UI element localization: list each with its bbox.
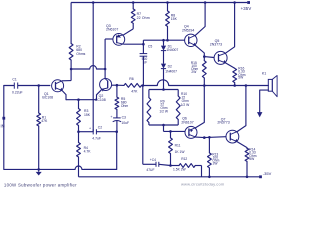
wire emitter rail bbox=[66, 99, 97, 101]
svg-text:1K 1W: 1K 1W bbox=[175, 150, 186, 154]
wire Q1/Q2 collector link with hop bbox=[71, 66, 105, 69]
wire Q4 base lead bbox=[184, 39, 186, 41]
svg-text:R11: R11 bbox=[175, 144, 181, 148]
svg-text:1N4007: 1N4007 bbox=[165, 69, 177, 73]
svg-text:15K: 15K bbox=[171, 17, 178, 21]
node bus C4/C5 junction bbox=[142, 84, 145, 87]
svg-text:Ohms: Ohms bbox=[76, 52, 85, 56]
svg-text:1/2 W: 1/2 W bbox=[159, 109, 168, 113]
svg-text:K1: K1 bbox=[262, 72, 266, 76]
wire R7 to Q3 emitter bbox=[124, 23, 134, 35]
svg-text:R12: R12 bbox=[181, 157, 187, 161]
svg-text:2N3773: 2N3773 bbox=[210, 43, 222, 47]
node R3 top junction bbox=[77, 98, 80, 101]
wire Q2 base bbox=[112, 84, 117, 86]
capacitor C1 0.22uF bbox=[12, 78, 50, 95]
resistor R7 bbox=[131, 9, 149, 23]
resistor R1 bbox=[37, 86, 48, 170]
caption website bbox=[181, 182, 225, 187]
node bus Q7 collector junction bbox=[245, 84, 248, 87]
svg-text:5W: 5W bbox=[249, 157, 255, 161]
svg-text:1/2 W: 1/2 W bbox=[181, 103, 190, 107]
ground symbol speaker bbox=[257, 112, 262, 117]
node bus R15 junction bbox=[203, 84, 206, 87]
node R9R10 bottom junction bbox=[162, 124, 165, 127]
node top rail junction J5 bbox=[233, 1, 236, 4]
capacitor C2 4.7uF bbox=[89, 126, 117, 141]
svg-text:4.7K: 4.7K bbox=[84, 150, 92, 154]
svg-text:47UF: 47UF bbox=[146, 168, 154, 172]
svg-text:www.circuitstoday.com: www.circuitstoday.com bbox=[181, 182, 225, 187]
wire output bus with hop bbox=[142, 80, 269, 86]
wire R2 bottom to Q1 collector bbox=[62, 60, 71, 81]
node R13 rail junction bbox=[208, 176, 211, 179]
wire Q6 emitter to bus bbox=[196, 86, 205, 128]
capacitor C4 47uF bbox=[146, 158, 170, 172]
wire Q7 collector to bus bbox=[237, 86, 246, 132]
node R1 ground junction bbox=[37, 168, 40, 171]
wire ground rail with hop bbox=[4, 166, 117, 169]
node top rail junction J3 bbox=[166, 1, 169, 4]
svg-text:2W: 2W bbox=[191, 70, 197, 74]
transistor Q6 2N6107 bbox=[181, 117, 197, 139]
wire Q2 emitter bbox=[97, 89, 103, 100]
resistor R15 bbox=[191, 57, 206, 86]
capacitor C5 560pF bbox=[140, 44, 153, 85]
resistor R6 bbox=[124, 77, 142, 93]
svg-text:5W: 5W bbox=[238, 76, 244, 80]
svg-text:1N4007: 1N4007 bbox=[166, 48, 178, 52]
svg-text:C5: C5 bbox=[148, 44, 152, 48]
caption title bbox=[4, 183, 77, 188]
wire R9R10 top bbox=[149, 89, 178, 91]
diode D2 1N4007 bbox=[161, 64, 177, 74]
resistor R5 bbox=[115, 85, 128, 109]
transistor Q3 2N6107 bbox=[106, 24, 125, 45]
wire Q1 emitter bbox=[62, 91, 66, 100]
svg-text:+C4: +C4 bbox=[150, 158, 156, 162]
node Q2 collector bbox=[104, 68, 107, 71]
wire Q3 base bbox=[105, 39, 113, 69]
node top rail junction J4 bbox=[204, 1, 207, 4]
wire C2 left bbox=[79, 131, 94, 133]
svg-text:IN: IN bbox=[1, 124, 5, 129]
svg-text:0.22uF: 0.22uF bbox=[12, 91, 23, 95]
resistor R16 bbox=[233, 67, 246, 86]
node C2/C3 ground junction bbox=[115, 130, 118, 133]
node R13 top junction bbox=[208, 136, 211, 139]
node Q6 collector / Q7 base node bbox=[203, 136, 206, 139]
resistor R9 bbox=[147, 90, 169, 126]
svg-text:+: + bbox=[89, 127, 91, 131]
wire Q4 emitter bbox=[195, 45, 204, 56]
wire -35V rail bbox=[79, 176, 260, 178]
wire Q5 emitter to R16 bbox=[225, 63, 234, 69]
svg-text:2N5294: 2N5294 bbox=[182, 28, 194, 32]
resistor R13 bbox=[208, 137, 220, 177]
wire Q3 collector bbox=[123, 43, 143, 45]
svg-text:+: + bbox=[110, 115, 112, 119]
node Q3 collector / C5 junction bbox=[142, 43, 145, 46]
node Q4 emitter / Q5 base node bbox=[203, 55, 206, 58]
node IN terminal bbox=[1, 117, 6, 129]
wire R4 to -35V rail bbox=[78, 157, 80, 177]
svg-text:-35V: -35V bbox=[263, 171, 272, 176]
transistor Q7 2N3773 bbox=[217, 118, 238, 143]
transistor Q1 BC108 bbox=[42, 80, 63, 100]
wire R9R10 bottom bbox=[149, 124, 178, 126]
wire Q2 collector stub bbox=[104, 69, 106, 79]
node -35V terminal bbox=[259, 171, 271, 178]
resistor R12 bbox=[171, 157, 202, 171]
svg-text:4.7uF: 4.7uF bbox=[92, 137, 101, 141]
wire to Q6 base bbox=[164, 125, 186, 131]
svg-text:2N3773: 2N3773 bbox=[217, 121, 229, 125]
svg-text:pF: pF bbox=[143, 61, 147, 65]
wire C2 node to ground rail bbox=[84, 132, 117, 170]
wire IN vertical bbox=[3, 86, 5, 170]
node Q1 collector junction bbox=[70, 68, 73, 71]
node D2 / R9R10 top junction bbox=[162, 88, 165, 91]
wire +35V top rail bbox=[71, 2, 247, 4]
transistor Q4 2N5294 bbox=[182, 25, 197, 47]
svg-text:+35V: +35V bbox=[241, 6, 252, 11]
svg-text:10uF: 10uF bbox=[121, 121, 129, 125]
node top rail junction J2 bbox=[132, 1, 135, 4]
wire Q7 emitter to R14 bbox=[237, 142, 247, 149]
wire bootstrap branch bbox=[143, 86, 156, 165]
svg-text:47K: 47K bbox=[131, 90, 138, 94]
wire input corner bbox=[4, 85, 14, 87]
wire R2 top lead bbox=[70, 3, 72, 44]
wire R8 top lead bbox=[167, 3, 169, 11]
svg-text:C1: C1 bbox=[12, 78, 16, 82]
transistor Q2 BC108 bbox=[95, 79, 112, 102]
speaker K1 bbox=[262, 72, 277, 97]
svg-text:2W: 2W bbox=[213, 161, 219, 165]
node Q1 base / R1 junction bbox=[37, 84, 40, 87]
resistor R8 bbox=[166, 11, 178, 27]
svg-text:Ohm: Ohm bbox=[121, 104, 129, 108]
node R11 top junction bbox=[169, 130, 172, 133]
svg-text:15K: 15K bbox=[84, 113, 91, 117]
wire D1-D2 bbox=[163, 51, 165, 64]
transistor Q5 2N3773 bbox=[210, 39, 227, 64]
svg-text:100W Subwoofer power amplifier: 100W Subwoofer power amplifier bbox=[4, 183, 77, 188]
wire Q5 base bbox=[204, 56, 214, 59]
resistor R10 bbox=[176, 90, 190, 126]
resistor R14 bbox=[245, 148, 257, 177]
svg-text:C3: C3 bbox=[122, 115, 126, 119]
node bus R16 junction bbox=[233, 84, 236, 87]
svg-text:BC108: BC108 bbox=[42, 96, 53, 100]
svg-text:C2: C2 bbox=[98, 126, 102, 130]
node R11 bottom junction bbox=[169, 164, 172, 167]
wire R8 bottom lead bbox=[167, 26, 169, 40]
node top rail junction J1 bbox=[92, 1, 95, 4]
wire R3-R4 bbox=[78, 126, 80, 143]
node +35V terminal bbox=[241, 1, 252, 11]
wire speaker to ground bbox=[260, 90, 269, 112]
node R8 bottom bbox=[166, 39, 169, 42]
node C2 branch junction bbox=[77, 130, 80, 133]
node D1 anode bbox=[162, 39, 165, 42]
wire Q4 collector bbox=[195, 3, 205, 36]
ground symbol input bbox=[36, 169, 42, 175]
svg-text:2N6107: 2N6107 bbox=[106, 28, 118, 32]
wire Q5 collector bbox=[225, 3, 234, 54]
svg-text:R6: R6 bbox=[129, 77, 134, 81]
wire R12 to -35V rail bbox=[201, 166, 203, 177]
node R14 rail junction bbox=[246, 176, 249, 179]
resistor R2 bbox=[69, 44, 85, 61]
wire Q6 collector bbox=[196, 136, 205, 139]
diode D1 1N4007 bbox=[161, 40, 178, 52]
svg-text:D2: D2 bbox=[168, 65, 172, 69]
svg-text:22 Ohm: 22 Ohm bbox=[137, 16, 150, 20]
node Q2 base / R5 / R6 junction bbox=[116, 84, 119, 87]
wire Q7 base bbox=[204, 136, 226, 139]
svg-text:47K: 47K bbox=[41, 119, 48, 123]
svg-text:2N6107: 2N6107 bbox=[181, 120, 193, 124]
wire bias node bbox=[143, 40, 184, 44]
wire R6 left lead bbox=[117, 84, 124, 86]
wire D2 cathode down bbox=[163, 69, 165, 90]
wire R7 top lead bbox=[132, 3, 134, 9]
wire vertical feed to C2 bbox=[92, 3, 94, 132]
resistor R11 bbox=[169, 131, 186, 165]
capacitor C3 10uF bbox=[110, 109, 129, 131]
resistor R3 bbox=[77, 100, 91, 126]
svg-text:1.5K 2W: 1.5K 2W bbox=[173, 168, 187, 172]
resistor R4 bbox=[77, 143, 92, 158]
